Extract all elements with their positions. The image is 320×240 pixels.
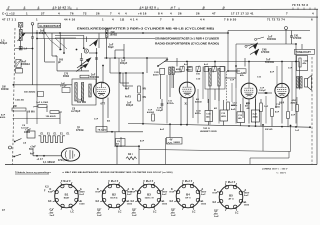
svg-text:4Ω: 4Ω: [214, 107, 217, 110]
wire column texture right: [167, 62, 292, 124]
wire feedback top: [139, 149, 291, 151]
svg-text:4ΩΩr: 4ΩΩr: [186, 69, 192, 72]
svg-text:1: 1: [26, 11, 28, 15]
value label mid extras: [257, 68, 293, 79]
grid cap terminal G: [285, 27, 288, 45]
svg-text:KGP: KGP: [131, 192, 137, 194]
svg-text:K: K: [50, 188, 52, 191]
wire lower columns: [209, 99, 288, 127]
value label 1nF 50pF: [108, 45, 114, 50]
svg-text:7: 7: [160, 18, 162, 22]
svg-text:Tilladede lorenz og spændinger: Tilladede lorenz og spændinger: [15, 172, 51, 174]
svg-text:G: G: [201, 200, 203, 203]
svg-text:B1: B1: [65, 192, 69, 196]
svg-text:G: G: [80, 200, 82, 203]
svg-text:G1: G1: [132, 209, 136, 212]
label box GLIDEKONTAKT: [38, 23, 61, 38]
svg-text:70 74 72 3: 70 74 72 3: [292, 3, 308, 7]
value label 17: [23, 143, 26, 145]
svg-text:X2: X2: [185, 103, 189, 106]
tube socket B5: [215, 183, 245, 212]
resistor R1: [19, 47, 27, 51]
svg-text:47 17 1 1: 47 17 1 1: [2, 18, 16, 22]
svg-text:7: 7: [286, 11, 288, 15]
svg-text:HUMMET 22ΩΩ: HUMMET 22ΩΩ: [200, 131, 217, 133]
resistor R2b box: [16, 69, 23, 74]
wire speaker feed: [295, 61, 299, 75]
svg-text:000Ω: 000Ω: [63, 76, 69, 78]
svg-text:100Ω: 100Ω: [24, 132, 30, 134]
capacitor C9 block: [21, 125, 35, 138]
wave switch S1 pennant: [87, 37, 98, 47]
tube designator AL4: [279, 102, 285, 105]
wire speaker return columns: [262, 124, 291, 152]
resistor R14: [287, 112, 296, 119]
svg-text:TONEADAPT: TONEADAPT: [296, 51, 312, 54]
svg-text:4: 4: [125, 11, 127, 15]
svg-text:7: 7: [110, 11, 112, 15]
resistor R25: [296, 97, 299, 127]
svg-text:4nF: 4nF: [275, 111, 280, 114]
svg-text:ΩΩ 4ΩΩΩ: ΩΩ 4ΩΩΩ: [24, 91, 36, 94]
svg-text:1,4: 1,4: [24, 47, 28, 50]
wire V3 leads: [243, 62, 256, 124]
svg-text:K: K: [214, 189, 216, 192]
svg-text:2nF: 2nF: [291, 115, 296, 117]
mains switch S4a: [14, 139, 22, 143]
svg-text:F M+2 F: F M+2 F: [226, 181, 236, 184]
svg-text:K: K: [171, 188, 173, 191]
resistor R21 boxed: [96, 127, 107, 133]
svg-text:1500: 1500: [127, 204, 133, 206]
heater chain labels: [41, 133, 71, 135]
svg-text:B3: B3: [147, 192, 151, 196]
svg-text:4V: 4V: [170, 138, 173, 141]
wire antenna branch: [15, 41, 33, 85]
svg-text:3mF: 3mF: [214, 216, 219, 218]
svg-text:4Ωr: 4Ωr: [206, 116, 210, 119]
svg-text:4nΩ: 4nΩ: [231, 108, 236, 111]
value label below bus extra: [140, 128, 300, 142]
svg-text:4000ΩA: 4000ΩA: [21, 63, 31, 66]
svg-text:4Ωr: 4Ωr: [238, 117, 242, 120]
value label 7nF mid: [147, 109, 154, 114]
svg-text:4 1 4: 4 1 4: [130, 18, 138, 22]
svg-text:B2: B2: [112, 192, 116, 196]
wire anode bus right segment: [228, 31, 310, 34]
svg-text:KGP: KGP: [48, 192, 54, 194]
value labels voltage table row B: [2, 11, 314, 15]
svg-text:1nF: 1nF: [295, 130, 300, 132]
IF transformer T1 windings: [169, 67, 175, 75]
wire AVC bus: [36, 30, 155, 124]
svg-text:1nF: 1nF: [264, 106, 269, 108]
resistor R15 divider: [167, 138, 183, 145]
value label 4nF3: [125, 95, 131, 98]
svg-text:76: 76: [70, 11, 74, 15]
svg-text:E447: E447: [64, 197, 70, 200]
svg-text:6: 6: [311, 18, 313, 22]
resistor R13: [271, 109, 280, 117]
svg-text:44 4 16: 44 4 16: [64, 18, 76, 22]
ground terminal E: [31, 23, 34, 34]
tuning gang C2a: [80, 53, 83, 71]
value label under V1: [94, 119, 110, 123]
svg-text:1000Ω: 1000Ω: [110, 34, 118, 36]
resistor R3 grid stopper: [80, 74, 99, 79]
value label T2: [196, 71, 202, 76]
wire top tube feeds: [177, 58, 245, 67]
svg-text:B4: B4: [186, 192, 190, 196]
svg-text:4ΩΩ: 4ΩΩ: [221, 115, 226, 118]
resistor R5: [138, 95, 147, 102]
svg-text:27: 27: [41, 11, 45, 15]
socket B3 pin labels: [131, 180, 168, 217]
tick marks line 1: [8, 8, 315, 10]
svg-text:G1: G1: [97, 209, 101, 212]
value label C10: [196, 79, 235, 82]
svg-text:72: 72: [83, 11, 87, 15]
capacitor C10 box: [116, 139, 126, 147]
value labels above resistor boxes: [195, 107, 250, 115]
terminal on border: [9, 146, 12, 149]
value labels top right corner: [292, 3, 308, 7]
svg-text:A: A: [127, 188, 129, 191]
value label 7nF 50000: [265, 59, 274, 64]
svg-text:LC: LC: [235, 211, 239, 214]
svg-text:F M+2 F: F M+2 F: [61, 180, 71, 183]
svg-text:400pF: 400pF: [126, 104, 134, 107]
svg-text:500 MΩ: 500 MΩ: [77, 102, 86, 104]
svg-text:14 15 87 8: 14 15 87 8: [140, 6, 156, 10]
svg-text:47: 47: [212, 11, 216, 15]
svg-text:47Ω (5Ω): 47Ω (5Ω): [58, 159, 69, 162]
value label 2nF 500pF: [39, 31, 47, 35]
wire left lower: [26, 111, 28, 124]
wire tuning lower: [55, 56, 89, 71]
svg-text:1nF 0,1MΩ: 1nF 0,1MΩ: [36, 102, 48, 104]
wire left drops: [13, 84, 73, 86]
value label C10 above V3: [240, 73, 246, 78]
resistor R17: [36, 102, 48, 107]
wire drop left pair: [116, 145, 140, 164]
svg-text:4Ω: 4Ω: [116, 142, 119, 145]
wire V2 leads: [161, 62, 194, 125]
loudspeaker LS1: [305, 76, 312, 91]
svg-text:71 72 73 74: 71 72 73 74: [267, 18, 285, 22]
value labels T1 right: [175, 66, 192, 73]
svg-text:G1: G1: [214, 210, 218, 213]
band switch S2 contact: [157, 59, 168, 67]
capacitor C41 box: [153, 68, 165, 76]
socket B1 pin labels: [48, 180, 85, 217]
svg-text:+6 16: +6 16: [138, 11, 147, 15]
resistor R6 detector load: [227, 102, 236, 110]
tone filter box: [297, 56, 309, 71]
svg-text:EF 9: EF 9: [185, 198, 191, 200]
resistor R16 dropper: [12, 106, 35, 114]
resistor R4: [138, 86, 147, 93]
svg-text:AT 4: AT 4: [228, 198, 234, 201]
socket annotation left: [44, 187, 49, 193]
svg-text:G: G: [162, 200, 164, 203]
svg-text:1Ω: 1Ω: [120, 18, 125, 22]
svg-text:4: 4: [312, 11, 314, 15]
svg-text:C10: C10: [196, 79, 201, 81]
wire grid bus 2: [164, 61, 296, 63]
svg-text:LC: LC: [118, 210, 122, 213]
wire mid column: [142, 57, 148, 123]
svg-text:500pF: 500pF: [0, 43, 8, 45]
svg-text:50pF: 50pF: [108, 47, 114, 49]
value label 1nF 50000: [267, 37, 276, 42]
svg-text:3mF: 3mF: [97, 215, 102, 217]
svg-text:4 7: 4 7: [171, 6, 176, 10]
resistor R22 zigzag: [126, 153, 137, 160]
svg-text:G: G: [244, 201, 246, 204]
svg-text:7: 7: [8, 6, 10, 10]
svg-text:GLIDEKONTAKT: GLIDEKONTAKT: [39, 25, 60, 28]
svg-text:4700Ω: 4700Ω: [76, 129, 84, 132]
svg-text:8: 8: [203, 6, 205, 10]
value label C48 470000: [261, 49, 270, 55]
svg-text:4x2: 4x2: [184, 63, 189, 66]
svg-text:4: 4: [170, 11, 172, 15]
trimmer capacitor C2t: [84, 49, 88, 53]
wire screen column: [118, 58, 120, 132]
svg-text:4nF: 4nF: [140, 139, 145, 142]
svg-text:4ΩΩr: 4ΩΩr: [153, 74, 159, 77]
wire tuning bus pair: [55, 36, 85, 54]
value labels voltage table row A: [8, 6, 225, 10]
value label 500M: [77, 99, 86, 104]
value label 7P 4700: [76, 127, 84, 132]
IF coil L2: [106, 29, 108, 38]
svg-text:4 4: 4 4: [200, 18, 205, 22]
tuning arrow 1: [77, 57, 92, 68]
svg-text:A: A: [201, 188, 203, 191]
svg-text:10 10 97 11: 10 10 97 11: [53, 6, 71, 10]
svg-text:1500: 1500: [79, 204, 85, 206]
socket B5 pin labels: [213, 181, 250, 218]
resistor R12: [260, 103, 269, 112]
svg-text:4: 4: [118, 11, 120, 15]
svg-text:50 MA: 50 MA: [28, 110, 36, 113]
svg-text:G1: G1: [50, 209, 54, 212]
antenna terminal A1: [18, 23, 22, 27]
svg-text:LC: LC: [192, 210, 196, 213]
wire oscillator columns: [104, 38, 168, 74]
value label lamp annotations: [37, 159, 69, 164]
svg-text:4000: 4000: [0, 116, 6, 119]
svg-text:4Ωr: 4Ωr: [303, 62, 307, 65]
svg-text:ENKELKREDSOMFATTER 3 RØR+3 CY: ENKELKREDSOMFATTER 3 RØR+3 CYLINDER MB 4…: [77, 27, 214, 31]
svg-text:50000Ω: 50000Ω: [265, 62, 274, 64]
svg-text:pF: pF: [58, 62, 62, 64]
value label hum pot: [200, 128, 217, 133]
value label osc grid C8: [71, 108, 81, 113]
svg-text:1500: 1500: [162, 204, 168, 206]
socket annotation far left bottom: [2, 209, 5, 212]
tube designator X7: [246, 103, 250, 106]
socket B4 pin labels: [170, 180, 207, 217]
resistor R8 boxed: [220, 110, 228, 121]
heater chain filaments: [39, 136, 65, 143]
mixer tube V1: [93, 82, 109, 98]
tube designator 6T7: [101, 103, 106, 106]
svg-text:0: 0: [223, 6, 225, 10]
chassis outline right inner dashed: [311, 57, 313, 165]
svg-text:K: K: [97, 188, 99, 191]
svg-text:4nF: 4nF: [125, 87, 130, 90]
caption measurement note: [62, 171, 173, 174]
svg-text:F M+2 F: F M+2 F: [144, 180, 154, 183]
svg-text:C2Ω 4Ω: C2Ω 4Ω: [15, 98, 24, 101]
antenna coil L1: [18, 27, 26, 41]
svg-text:▲ MÅLT MED MÅLEAPPARATER - BR: ▲ MÅLT MED MÅLEAPPARATER - BRIDGE INSTRU…: [62, 171, 173, 174]
coupling capacitor C5: [156, 99, 163, 112]
svg-text:A: A: [162, 188, 164, 191]
svg-text:4nF: 4nF: [30, 152, 35, 155]
tube designator X2: [185, 103, 189, 106]
value label left of lamp: [29, 146, 36, 155]
pickup switch S3 contacts: [245, 37, 264, 47]
svg-text:470000: 470000: [261, 51, 270, 54]
caption tilladede lorenz: [15, 172, 51, 174]
svg-text:4: 4: [112, 18, 114, 22]
svg-text:100pF: 100pF: [60, 86, 67, 88]
value label heater left: [24, 130, 31, 135]
value label 4nF: [125, 87, 130, 90]
chassis outline right: [316, 9, 318, 164]
svg-text:4Ωr: 4Ωr: [245, 105, 249, 108]
wire nested corners: [110, 72, 143, 89]
wire cathode bus: [128, 123, 311, 128]
svg-text:RADIO-EKSPORTØREN (CYCLONE RAD: RADIO-EKSPORTØREN (CYCLONE RADIO): [155, 42, 219, 45]
terminal strip line 1: [6, 8, 318, 11]
wire tuning branches: [45, 33, 64, 62]
svg-text:F M+2 F: F M+2 F: [183, 180, 193, 183]
svg-text:K: K: [132, 188, 134, 191]
svg-text:8: 8: [172, 18, 174, 22]
svg-text:G3: G3: [48, 200, 52, 203]
svg-text:4Ω: 4Ω: [107, 120, 110, 123]
svg-text:1nF: 1nF: [288, 68, 293, 70]
value labels left mid: [15, 91, 44, 102]
svg-text:1nF: 1nF: [94, 119, 99, 121]
svg-text:100pF: 100pF: [156, 110, 163, 112]
svg-text:4ΩΩr: 4ΩΩr: [253, 115, 259, 118]
svg-text:C11: C11: [257, 77, 262, 79]
svg-text:KGP: KGP: [170, 192, 176, 194]
svg-text:4Ωr: 4Ωr: [240, 74, 244, 77]
wire detector: [215, 65, 237, 100]
svg-text:100: 100: [196, 74, 201, 76]
resistor R10 boxed: [251, 110, 259, 122]
svg-text:2mF: 2mF: [162, 194, 167, 196]
IF transformer T2 box: [205, 67, 225, 125]
pickup switch S3 pennants: [249, 43, 259, 56]
svg-text:2W 4Ω: 2W 4Ω: [265, 128, 273, 131]
wire feedback lower: [250, 152, 289, 165]
svg-text:C1Ω: C1Ω: [206, 114, 211, 116]
svg-text:4ΩΩr: 4ΩΩr: [232, 104, 238, 107]
svg-text:47ΩΩr: 47ΩΩr: [167, 102, 174, 105]
value labels resistor row fill: [167, 98, 297, 108]
wire V4 leads: [276, 62, 288, 124]
svg-text:LC: LC: [153, 210, 157, 213]
value label 1W 4000: [1, 87, 9, 92]
svg-text:26: 26: [196, 11, 200, 15]
coupling capacitor C6: [258, 87, 272, 93]
svg-text:2mF: 2mF: [201, 194, 206, 196]
title GRAMMOFONMODTAGER block: [155, 37, 219, 45]
svg-text:2mF: 2mF: [244, 195, 249, 197]
svg-text:26: 26: [96, 11, 100, 15]
svg-text:1: 1: [36, 18, 38, 22]
tube socket B4: [172, 182, 202, 211]
value label 500pF: [58, 59, 64, 64]
wire diagonal links glidekontakt: [44, 31, 67, 50]
wire right column x236: [236, 44, 286, 66]
value label 1,5 500pF: [0, 41, 8, 46]
tube socket B1: [51, 182, 81, 211]
svg-text:KGP: KGP: [213, 193, 219, 195]
svg-text:X,5: X,5: [45, 187, 49, 189]
tuning arrow 2: [76, 63, 89, 72]
svg-text:B5: B5: [229, 193, 233, 197]
shield partition dashed: [226, 71, 228, 102]
tube socket B3: [133, 182, 163, 211]
value label 170000: [63, 73, 69, 78]
wire left mid links: [13, 106, 63, 124]
svg-text:1: 1: [102, 18, 104, 22]
svg-text:72Ω Ω: 72Ω Ω: [203, 128, 210, 130]
svg-text:1: 1: [38, 6, 40, 10]
svg-text:4nF: 4nF: [160, 128, 165, 131]
ground bus bottom: [5, 164, 317, 166]
svg-text:1500: 1500: [201, 204, 207, 206]
svg-text:LC: LC: [71, 210, 75, 213]
output transformer T3: [296, 75, 302, 90]
wire anode bus: [21, 32, 229, 34]
mains switch S4b: [13, 154, 21, 157]
IF amplifier tube V2: [179, 82, 195, 98]
svg-text:3mF: 3mF: [50, 215, 55, 217]
label TONEADAPT boxed: [295, 49, 315, 54]
resistor R7 boxed: [205, 111, 213, 122]
svg-text:4ΩΩ: 4ΩΩ: [275, 105, 280, 108]
wire V1 leads: [97, 65, 109, 131]
svg-text:26: 26: [178, 11, 182, 15]
resistor R18: [46, 111, 60, 118]
svg-text:4,1 380mF: 4,1 380mF: [43, 161, 56, 164]
svg-text:G3: G3: [96, 200, 100, 203]
svg-text:8 4: 8 4: [158, 11, 163, 15]
svg-text:4x2: 4x2: [204, 63, 209, 66]
svg-text:2mF: 2mF: [79, 194, 84, 196]
wire right column x228: [227, 33, 229, 71]
terminal strip line 2: [6, 16, 318, 18]
svg-text:470000: 470000: [293, 37, 302, 40]
value label 1nF 400pF: [120, 60, 128, 65]
chassis outline left dashed: [13, 28, 15, 165]
svg-text:A: A: [244, 189, 246, 192]
svg-text:7A 4,2Ω: 7A 4,2Ω: [98, 129, 107, 132]
svg-text:G3: G3: [213, 201, 217, 204]
svg-text:3mF: 3mF: [171, 215, 176, 217]
svg-text:400pF: 400pF: [120, 62, 128, 65]
